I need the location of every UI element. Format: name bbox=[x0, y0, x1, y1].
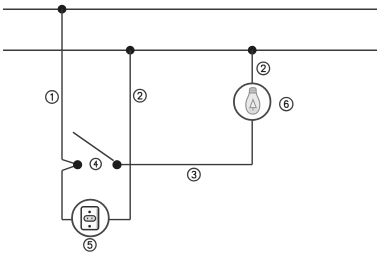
socket X: central receptacle oval bbox=[84, 216, 96, 221]
socket X: bottom screw dot bbox=[88, 225, 91, 228]
wire: kink upper diagonal to switch left terminal bbox=[62, 160, 77, 165]
wire 1: vertical drop from L1 (upper part) bbox=[61, 9, 63, 159]
wire: kink lower diagonal from switch left terminal bbox=[62, 165, 77, 170]
socket X: receptacle slot right bbox=[91, 218, 93, 220]
switch right terminal dot bbox=[112, 160, 121, 169]
wire: horizontal stub into socket left side bbox=[62, 219, 72, 221]
switch left terminal dot bbox=[73, 160, 82, 169]
label circled 4 (switch) bbox=[90, 158, 101, 169]
socket X: outer circle bbox=[72, 200, 109, 237]
socket X: top screw dot bbox=[88, 211, 91, 214]
label circled 3 bbox=[188, 168, 201, 181]
wire: from lamp bottom down to horizontal run bbox=[251, 120, 253, 165]
junction dot on L1 at x=62 bbox=[58, 5, 67, 14]
label circled 5 (socket) bbox=[84, 239, 96, 251]
wire: second supply line L2 bbox=[3, 49, 377, 51]
junction dot on L2 at x=252 bbox=[248, 46, 257, 55]
switch S (open) blade bbox=[73, 132, 114, 160]
label circled 2 (lamp wire) bbox=[257, 62, 270, 75]
wire 3: horizontal run from switch right terminal to lamp branch bbox=[117, 164, 252, 166]
lamp EL: bulb glass bbox=[246, 93, 260, 114]
socket X: receptacle slot left bbox=[87, 218, 89, 220]
wire 3: vertical drop from L2 at x=252 to lamp top bbox=[251, 50, 253, 83]
label circled 2 (left wire) bbox=[134, 89, 147, 102]
label circled 1 bbox=[46, 91, 59, 104]
socket X: faceplate rounded rect bbox=[81, 207, 98, 230]
socket X: faceplate shadow right edge bbox=[96, 209, 98, 229]
lamp EL: bulb cap bbox=[249, 88, 256, 93]
label circled 6 (lamp) bbox=[280, 98, 293, 111]
wire: horizontal stub into socket right side bbox=[109, 219, 130, 221]
junction dot on L2 at x=130 bbox=[126, 46, 135, 55]
lamp EL: filament triangle bbox=[248, 106, 258, 113]
lamp EL: outer circle bbox=[234, 83, 271, 120]
wire 1: vertical drop lower part down to socket level bbox=[61, 171, 63, 220]
wire 2: vertical drop from L2 at x=130 down to socket level bbox=[129, 50, 131, 219]
wire: top supply line L1 bbox=[3, 8, 377, 10]
